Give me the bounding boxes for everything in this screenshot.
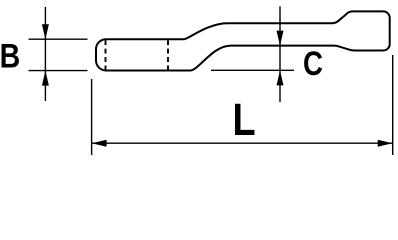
- dimension L arrow left: [92, 140, 107, 147]
- svg-text:C: C: [303, 44, 323, 83]
- dimension C extension line: [211, 69, 294, 71]
- hidden line (ring hole left edge): [105, 40, 107, 70]
- dimension C line: [279, 6, 281, 102]
- dimension B extension line top: [29, 38, 88, 40]
- dimension B arrow down: [42, 24, 49, 39]
- dimension B arrow up: [42, 71, 49, 86]
- dimension L extension line right: [392, 55, 394, 155]
- wrench body outline: [96, 11, 390, 70]
- hidden line (ring hole right edge): [167, 40, 169, 70]
- dimension L arrow right: [378, 140, 393, 147]
- dimension L line: [92, 142, 393, 144]
- dimension B extension line bottom: [29, 70, 88, 72]
- svg-text:B: B: [0, 37, 20, 75]
- dimension B line: [44, 7, 46, 101]
- svg-text:L: L: [233, 94, 256, 145]
- dimension L extension line left: [91, 79, 93, 155]
- dimension C arrow down: [277, 31, 284, 46]
- dimension C arrow up: [277, 70, 284, 85]
